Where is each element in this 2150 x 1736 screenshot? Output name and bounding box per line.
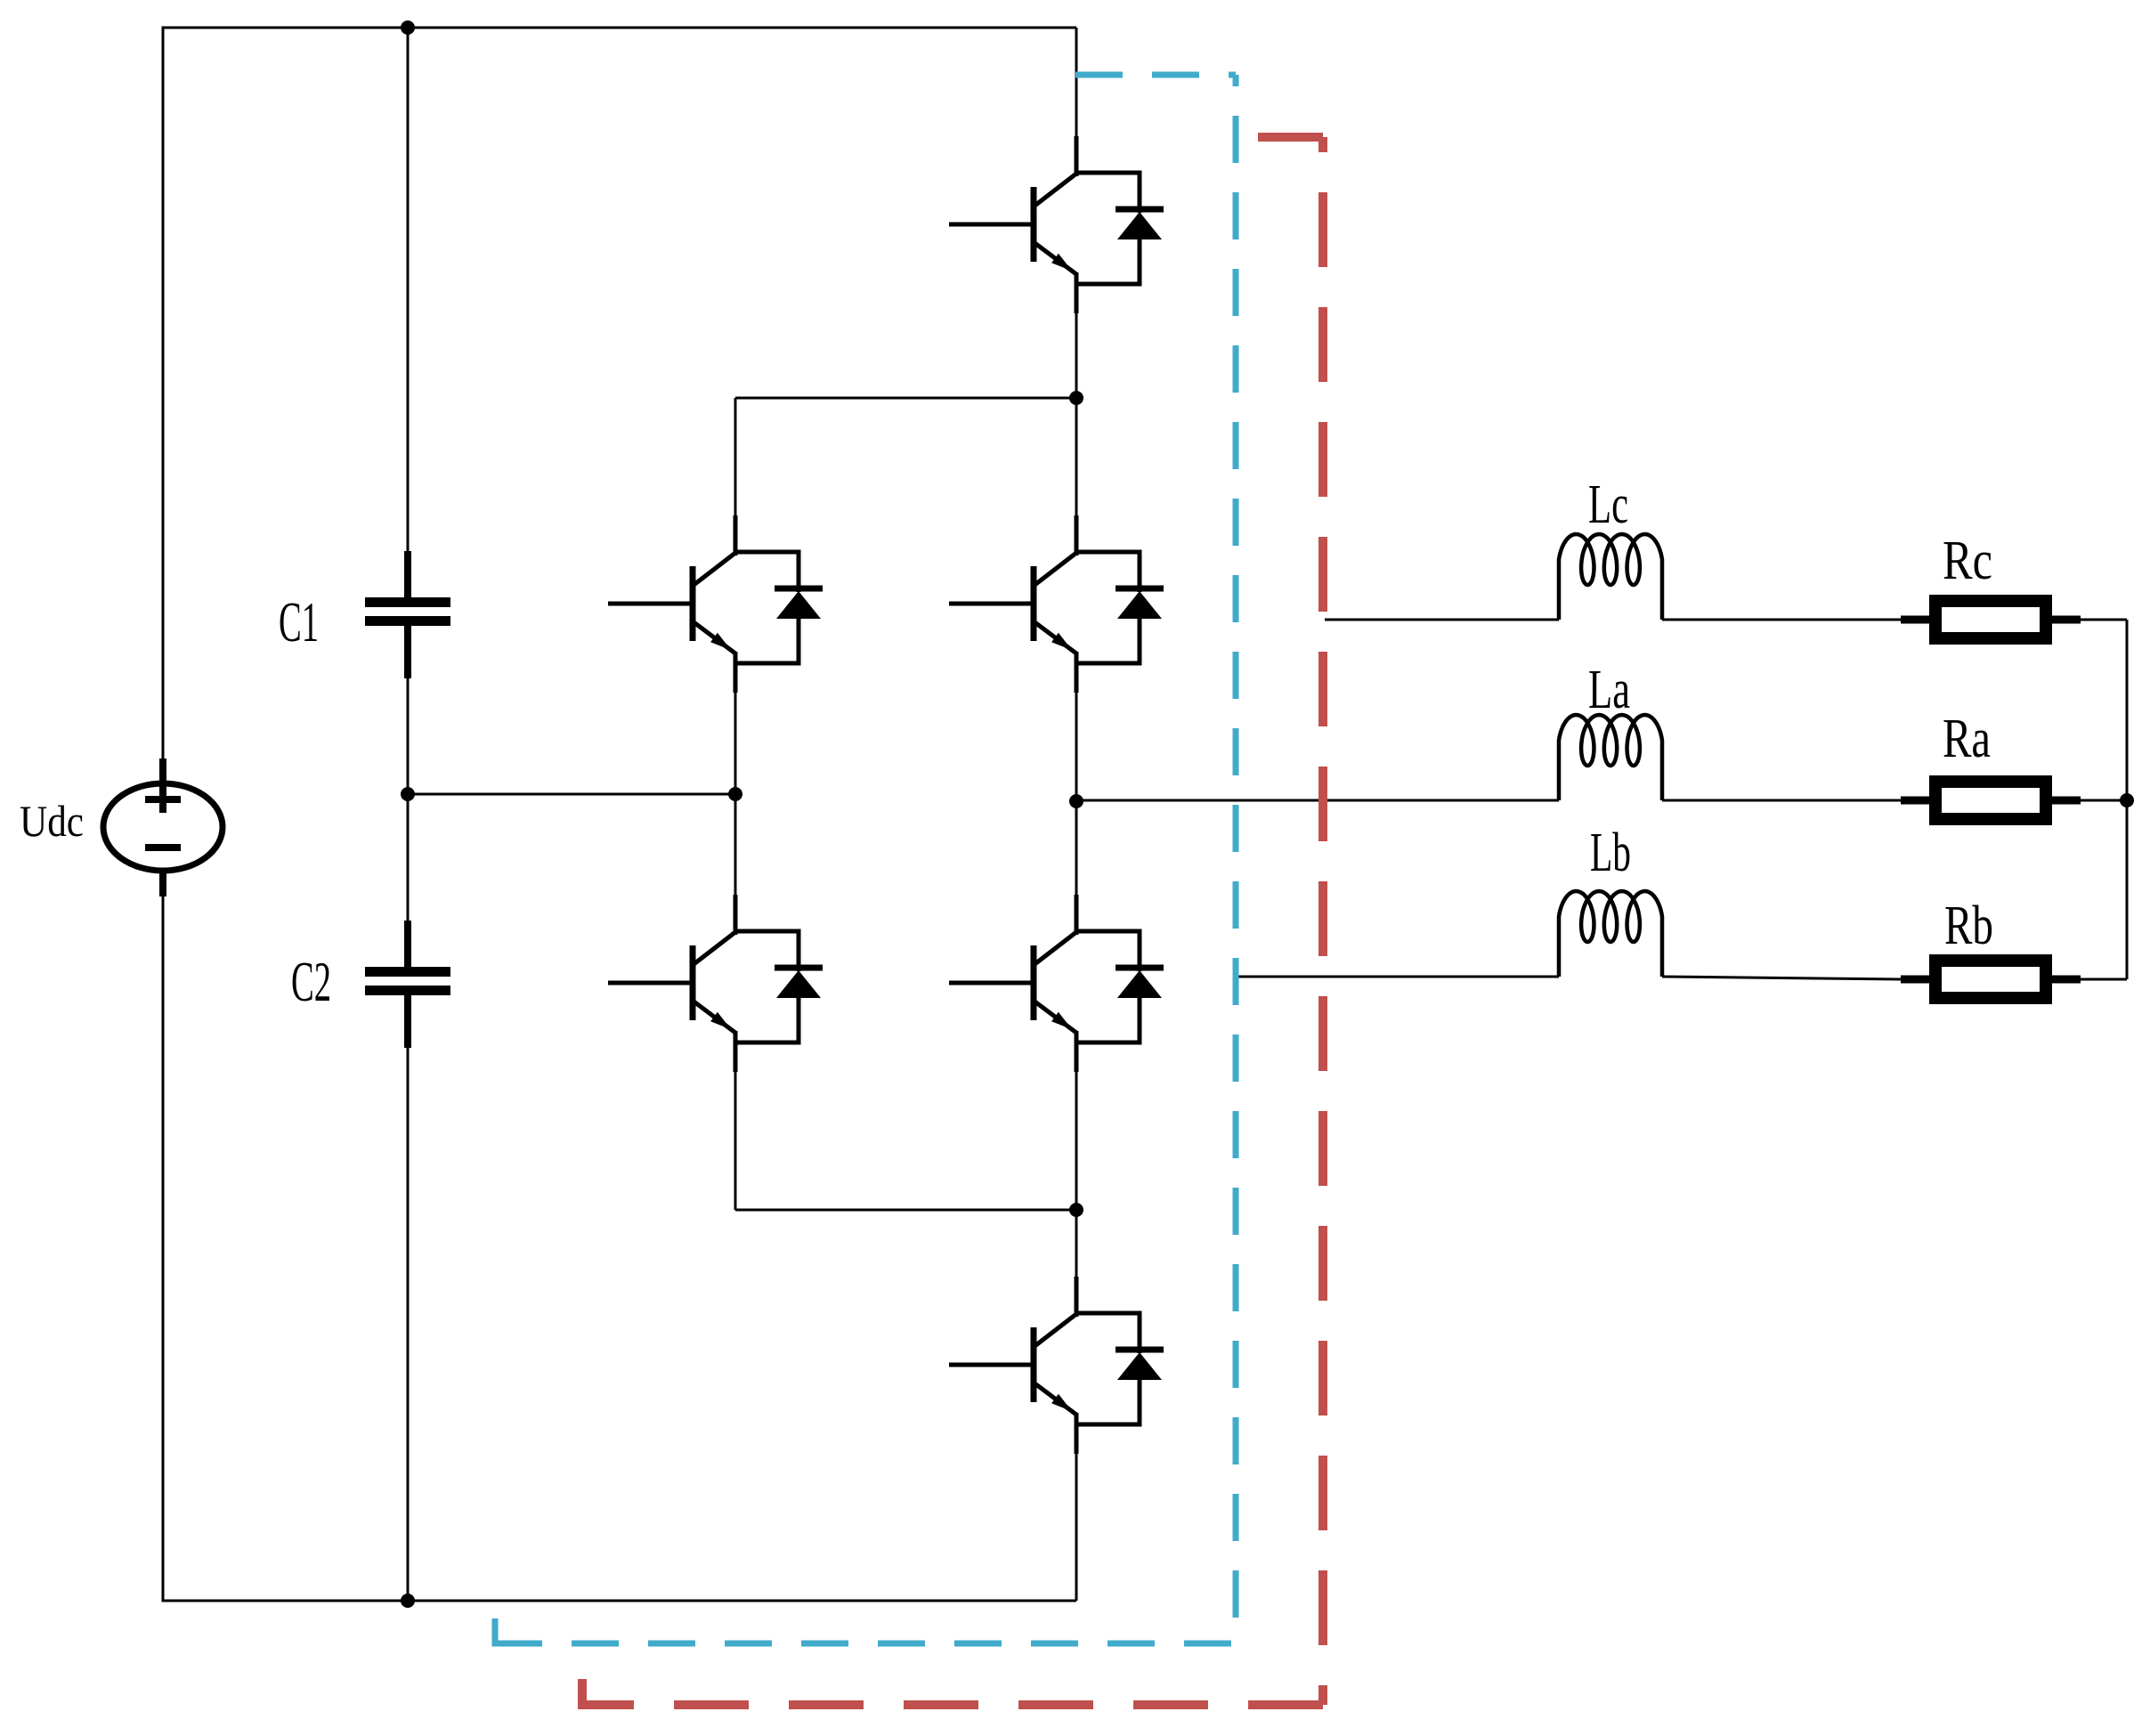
svg-text:Lc: Lc — [1588, 475, 1628, 535]
svg-text:Udc: Udc — [20, 796, 84, 846]
svg-text:Rc: Rc — [1943, 531, 1992, 591]
svg-text:C1: C1 — [279, 590, 319, 653]
svg-text:La: La — [1588, 660, 1630, 720]
svg-text:Rb: Rb — [1944, 896, 1993, 956]
svg-text:C2: C2 — [291, 950, 331, 1013]
svg-text:Lb: Lb — [1590, 823, 1631, 883]
svg-text:Ra: Ra — [1943, 709, 1991, 769]
